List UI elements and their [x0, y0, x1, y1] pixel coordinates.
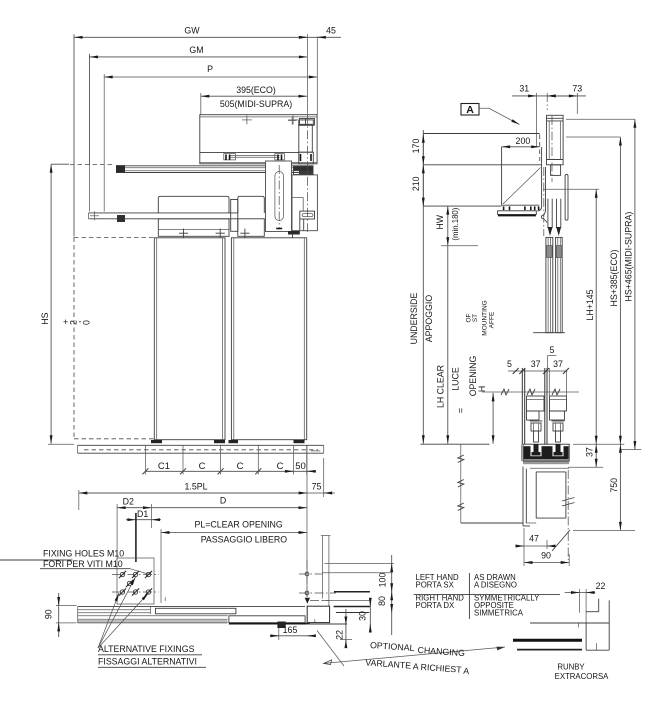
svg-text:D1: D1 — [137, 509, 148, 519]
svg-text:LUCE: LUCE — [451, 367, 461, 391]
dim HS+465(MIDI-SUPRA) — [566, 119, 641, 449]
svg-text:37: 37 — [531, 359, 541, 369]
bar end connector — [231, 200, 238, 232]
svg-text:505(MIDI-SUPRA): 505(MIDI-SUPRA) — [220, 99, 292, 109]
svg-text:HS+385(ECO): HS+385(ECO) — [609, 249, 619, 306]
svg-text:165: 165 — [283, 625, 298, 635]
svg-text:73: 73 — [572, 84, 582, 94]
svg-text:EXTRACORSA: EXTRACORSA — [555, 672, 610, 681]
sliding profile plan — [156, 608, 236, 614]
dim 395(ECO) 505(MIDI-SUPRA) — [201, 85, 307, 115]
svg-text:22: 22 — [335, 630, 345, 640]
dim HW min180 — [435, 206, 478, 246]
svg-text:50: 50 — [295, 461, 306, 472]
svg-text:170: 170 — [411, 139, 421, 154]
dim 100 — [378, 555, 392, 635]
cover cross marks — [242, 115, 298, 124]
svg-text:P: P — [207, 64, 213, 74]
track profile plan lower — [78, 616, 228, 623]
slow leaf drive bar — [89, 211, 238, 222]
dim row C1 C C C 50 — [142, 445, 316, 474]
hanger bracket with slot — [266, 161, 292, 232]
svg-text:MOUNTING: MOUNTING — [482, 300, 489, 335]
runby floor channel bars — [513, 640, 582, 649]
guide shoes — [527, 396, 567, 420]
recess box under channel — [530, 468, 569, 518]
label runby — [555, 663, 610, 682]
table divider lines — [414, 573, 560, 619]
channel base lines — [523, 462, 569, 464]
svg-text:AFFE: AFFE — [489, 311, 496, 328]
dim 80 — [377, 592, 392, 613]
floor band — [78, 445, 324, 453]
svg-text:A: A — [466, 104, 474, 116]
svg-text:GM: GM — [189, 45, 203, 55]
section door leaves — [533, 237, 565, 332]
svg-text:5: 5 — [549, 345, 554, 355]
reference line with breaks — [482, 389, 579, 395]
dim LH+145 — [543, 189, 599, 444]
dim 37 channel — [568, 444, 603, 467]
door panel 2 — [231, 238, 306, 440]
svg-text:HS: HS — [40, 312, 50, 324]
svg-text:210: 210 — [411, 176, 421, 191]
optional text — [365, 640, 470, 676]
svg-text:SIMMETRICA: SIMMETRICA — [474, 609, 524, 618]
dim at mounting line — [492, 393, 494, 444]
svg-text:LH+145: LH+145 — [585, 289, 595, 320]
floor channel black — [522, 444, 570, 461]
plan profile left tick — [164, 597, 166, 601]
svg-text:UNDERSIDE: UNDERSIDE — [409, 292, 419, 344]
belt with clamp brackets — [224, 154, 285, 160]
svg-text:D: D — [220, 496, 226, 506]
dim row 5 37 37 — [507, 359, 569, 374]
elevation centreline — [306, 34, 308, 114]
svg-text:D2: D2 — [123, 497, 134, 507]
svg-text:RUNBY: RUNBY — [557, 663, 585, 672]
svg-text:H: H — [477, 386, 487, 392]
recess blade profile — [523, 467, 536, 527]
ghost open leaf dashed — [74, 238, 154, 439]
dim 170 210 underside chain — [411, 130, 423, 444]
optional arrow line — [324, 647, 505, 665]
svg-text:FIXING HOLES M10: FIXING HOLES M10 — [43, 549, 124, 559]
note alternative fixings — [98, 577, 206, 667]
dim GW — [74, 26, 307, 237]
svg-text:A: A — [463, 666, 470, 676]
door1 top clamp profile — [158, 196, 229, 236]
dim 31 and 73 — [512, 84, 586, 134]
svg-text:PASSAGGIO LIBERO: PASSAGGIO LIBERO — [201, 534, 288, 544]
svg-text:37: 37 — [553, 359, 563, 369]
svg-text:PORTA SX: PORTA SX — [416, 581, 455, 590]
svg-text:C: C — [237, 461, 244, 472]
belt cover plate — [565, 174, 568, 220]
operator cover box — [200, 115, 317, 164]
svg-text:90: 90 — [541, 551, 551, 561]
dim 47 — [516, 528, 555, 549]
track rail — [116, 166, 314, 173]
plan right fixing holes — [299, 560, 336, 597]
glass leaf lines into floor detail — [522, 368, 566, 444]
rail right end bracket — [294, 166, 314, 174]
door2 top clamp profile — [238, 196, 264, 236]
plan right jamb — [306, 536, 393, 624]
dim 90 detail — [524, 549, 569, 566]
section centreline — [546, 93, 548, 110]
top wall bracket at right — [288, 116, 315, 125]
svg-text:90: 90 — [44, 609, 54, 619]
note fixing holes M10 — [0, 549, 150, 575]
dim 165 — [270, 625, 315, 640]
dim 200 — [502, 135, 540, 162]
svg-text:LH CLEAR: LH CLEAR — [436, 365, 446, 408]
svg-text:=: = — [455, 408, 465, 413]
svg-text:0: 0 — [82, 320, 92, 325]
svg-text:(min.180): (min.180) — [451, 207, 460, 240]
FFL ext right — [573, 443, 624, 445]
dim D2 and D — [117, 496, 307, 560]
dim 30 — [358, 600, 371, 630]
detail centreline with break — [562, 470, 575, 560]
svg-text:395(ECO): 395(ECO) — [236, 85, 276, 95]
dim LH clear opening line — [436, 246, 487, 444]
svg-text:APPOGGIO: APPOGGIO — [424, 295, 434, 343]
svg-text:ALTERNATIVE FIXINGS: ALTERNATIVE FIXINGS — [98, 644, 195, 654]
drive motor unit — [547, 115, 564, 175]
dim 45 — [299, 26, 341, 115]
svg-text:ST: ST — [472, 314, 479, 322]
svg-text:FISSAGGI ALTERNATIVI: FISSAGGI ALTERNATIVI — [98, 657, 197, 667]
dim D1 — [126, 509, 161, 562]
svg-text:PORTA DX: PORTA DX — [416, 601, 456, 610]
dim small 5 top — [548, 345, 557, 368]
svg-text:C1: C1 — [158, 461, 170, 472]
dim P — [104, 64, 317, 212]
clamp1 bolts — [179, 229, 225, 238]
svg-text:100: 100 — [378, 573, 388, 588]
svg-text:1.5PL: 1.5PL — [185, 482, 208, 492]
floor guides under doors — [151, 440, 305, 443]
svg-text:80: 80 — [377, 596, 387, 606]
fixing plate with holes — [112, 558, 159, 604]
clamp2 bolts — [240, 229, 297, 238]
dim 1.5PL and 75 — [79, 445, 335, 604]
svg-text:C: C — [199, 461, 206, 472]
header side channel — [538, 147, 547, 223]
svg-text:37: 37 — [585, 447, 595, 457]
dim HS with tolerance — [40, 164, 115, 444]
svg-text:47: 47 — [529, 534, 539, 544]
dim 750 — [573, 444, 635, 530]
svg-text:45: 45 — [326, 26, 336, 36]
svg-text:200: 200 — [516, 136, 531, 146]
mounting plate with rollers — [498, 206, 539, 215]
door panel 1 — [154, 238, 225, 440]
svg-text:PL=CLEAR OPENING: PL=CLEAR OPENING — [194, 520, 282, 530]
rail left end cap — [116, 165, 125, 172]
runby jamb profile — [530, 599, 609, 651]
FFL line left — [421, 443, 490, 445]
leader diagonal — [317, 631, 344, 667]
svg-text:30: 30 — [358, 611, 368, 621]
svg-text:31: 31 — [519, 84, 529, 94]
section cut diagonal — [552, 530, 570, 551]
svg-text:GW: GW — [184, 26, 200, 36]
svg-text:+: + — [63, 317, 68, 327]
svg-text:HW: HW — [435, 214, 445, 229]
right column: neck and foot bracket — [288, 175, 317, 235]
dim HS+385(ECO) — [566, 137, 620, 444]
dim GM — [90, 45, 308, 212]
labels mounting — [465, 300, 495, 335]
svg-text:75: 75 — [312, 482, 322, 492]
detail marker A — [461, 104, 520, 125]
hanger straps — [548, 199, 562, 236]
svg-text:C: C — [277, 461, 284, 472]
svg-text:5: 5 — [507, 359, 512, 369]
lower sliding profile plan — [229, 616, 310, 624]
floor clip plan — [277, 622, 285, 629]
guide bolts — [530, 421, 565, 442]
svg-text:22: 22 — [596, 581, 606, 591]
dim PL clear opening — [161, 520, 307, 603]
svg-text:A DISEGNO: A DISEGNO — [474, 581, 517, 590]
labels underside appoggio — [409, 292, 434, 344]
recess left wall with breaks — [458, 444, 523, 523]
drive carriage at right of cover — [299, 120, 314, 164]
svg-text:750: 750 — [609, 478, 619, 493]
dim 22 plan — [335, 609, 353, 645]
lintel lines — [423, 134, 541, 207]
svg-text:HS+465(MIDI-SUPRA): HS+465(MIDI-SUPRA) — [623, 212, 633, 302]
header box section — [502, 147, 541, 205]
dim 22 runby — [565, 581, 606, 622]
track profile plan upper — [78, 606, 305, 622]
dim 90 plan — [44, 593, 77, 637]
